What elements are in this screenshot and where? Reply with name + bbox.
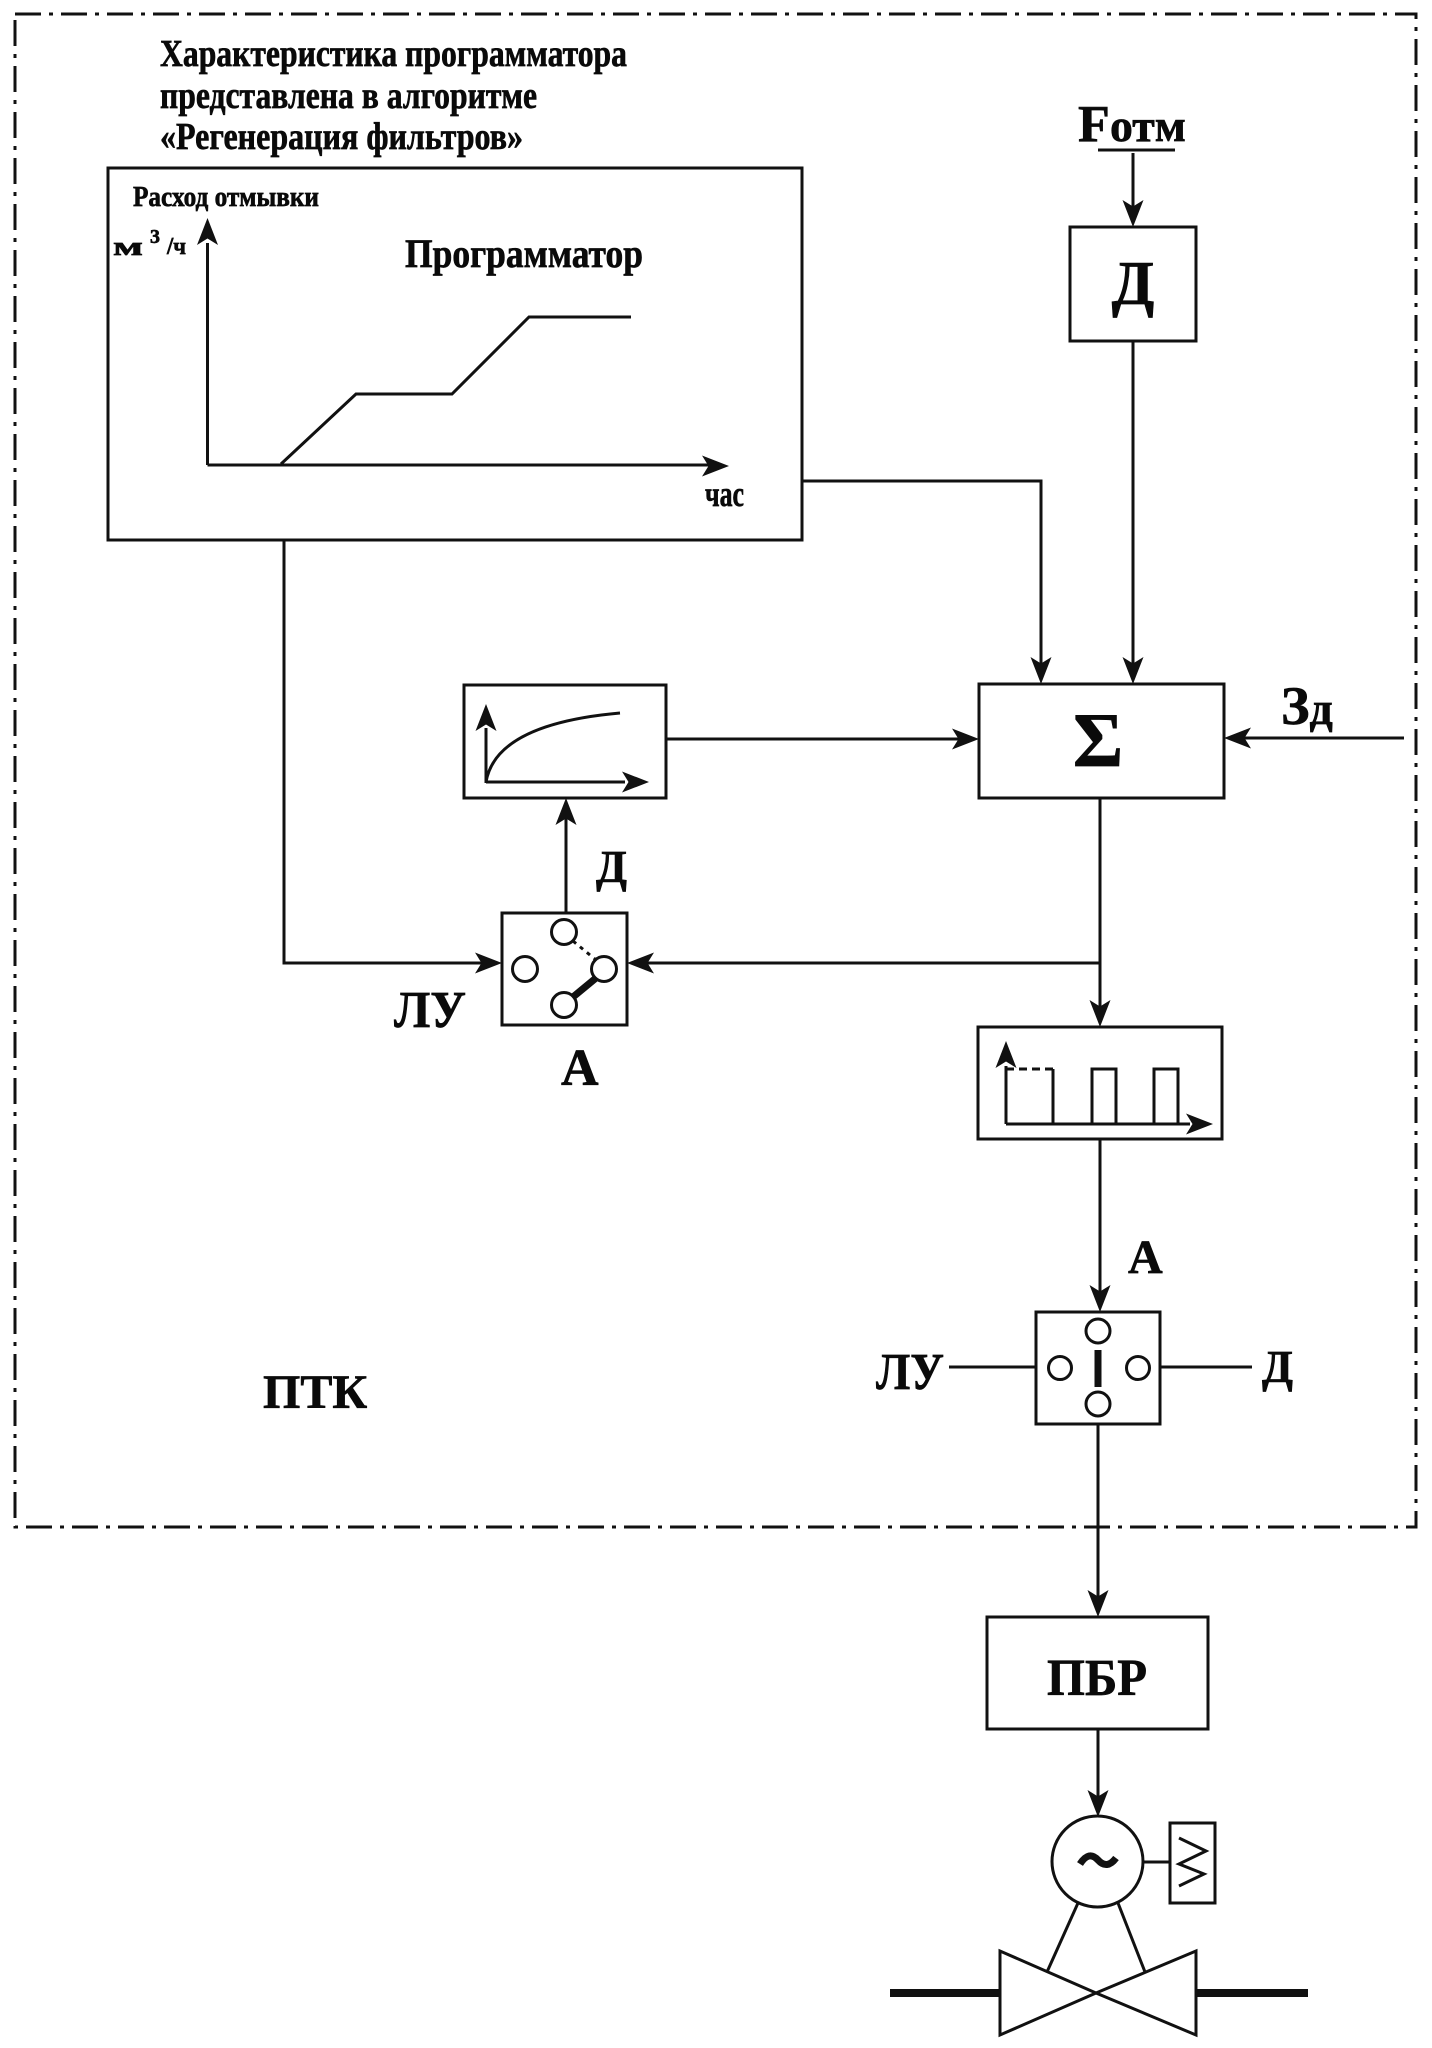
actuator legs: [1047, 1903, 1078, 1972]
svg-text:/ч: /ч: [166, 234, 186, 260]
svg-text:Расход отмывки: Расход отмывки: [133, 182, 319, 213]
pulse 2: [1092, 1069, 1116, 1124]
wire ПБР to motor: [1097, 1729, 1100, 1810]
svg-text:ЛУ: ЛУ: [876, 1344, 944, 1401]
caption text block: [160, 33, 627, 158]
wire programmator to summator: [802, 481, 1041, 677]
pulse 3: [1154, 1069, 1178, 1124]
wire SW1 to F(x): [565, 805, 568, 913]
svg-text:3: 3: [150, 226, 160, 248]
switch SW1: [502, 913, 627, 1025]
pulse 1: [1006, 1068, 1053, 1071]
ПТК dash-dot boundary: [15, 14, 1416, 1527]
svg-text:ПБР: ПБР: [1047, 1650, 1147, 1707]
svg-text:м: м: [113, 232, 143, 261]
svg-text:А: А: [1128, 1231, 1163, 1284]
wire Д to summator: [1132, 341, 1135, 677]
svg-text:Зд: Зд: [1281, 676, 1333, 736]
wire SW2 to ПБР: [1097, 1424, 1100, 1610]
switch SW2: [1036, 1312, 1160, 1424]
function block F(x) saturation curve: [464, 685, 666, 798]
wire motor to limit block: [1143, 1861, 1170, 1864]
svg-text:А: А: [561, 1040, 599, 1097]
wire programmator bottom to switch SW1: [284, 540, 489, 963]
wire Fотм to Д: [1132, 153, 1135, 220]
svg-text:представлена в алгоритме: представлена в алгоритме: [160, 75, 537, 117]
svg-text:Д: Д: [1112, 250, 1155, 318]
valve body: [1000, 1951, 1096, 2035]
svg-text:Σ: Σ: [1073, 697, 1123, 783]
wire summator to pulse block: [1099, 798, 1102, 1020]
pulse former block: [978, 1027, 1222, 1139]
wire F(x) to summator: [666, 738, 966, 741]
pipe right: [1196, 1989, 1308, 1997]
programmator block U-PRG: [108, 168, 802, 540]
contact dotted: [573, 941, 596, 960]
graph x-axis: [208, 464, 717, 467]
svg-text:Д: Д: [596, 842, 627, 892]
graph y-axis: [206, 243, 209, 465]
wire pulse block to switch SW2: [1099, 1139, 1102, 1305]
limit switch block: [1170, 1823, 1215, 1903]
svg-text:ЛУ: ЛУ: [394, 982, 466, 1039]
svg-text:«Регенерация фильтров»: «Регенерация фильтров»: [160, 116, 523, 158]
svg-text:отм: отм: [1110, 100, 1186, 151]
svg-text:ПТК: ПТК: [263, 1366, 367, 1419]
block ПБР: [987, 1617, 1208, 1729]
summator Σ: [979, 684, 1224, 798]
svg-text:Характеристика программатора: Характеристика программатора: [160, 33, 627, 75]
pipe left: [890, 1989, 1000, 1997]
sensor block Д: [1070, 227, 1196, 341]
svg-text:Д: Д: [1262, 1342, 1293, 1392]
motor actuator: [1052, 1816, 1143, 1907]
svg-text:Программатор: Программатор: [405, 231, 643, 276]
graph step curve: [281, 317, 631, 464]
contact closed: [573, 978, 596, 997]
svg-text:час: час: [705, 474, 744, 514]
wire feedback to SW1: [640, 962, 1100, 965]
wire Зд to summator: [1237, 737, 1404, 740]
svg-text:F: F: [1078, 96, 1110, 153]
